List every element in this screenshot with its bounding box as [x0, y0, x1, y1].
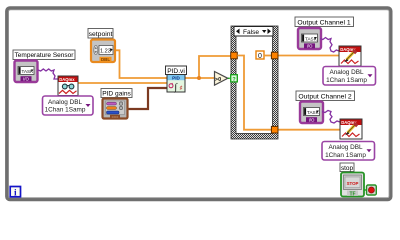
svg-text:I/O: I/O — [307, 44, 313, 49]
svg-text:Output Channel 1: Output Channel 1 — [297, 19, 350, 26]
svg-text:===: === — [112, 115, 119, 119]
tunnel out bottom right — [271, 126, 278, 133]
wire DAQmx Read to PID.vi — [78, 82, 167, 84]
iteration terminal — [10, 187, 20, 199]
wire PID gains to PID.vi — [128, 88, 168, 109]
label Temperature Sensor — [13, 50, 75, 60]
selector tunnel — [231, 75, 238, 83]
wire PID.vi output — [185, 77, 215, 79]
polymorphic selector Analog DBL 1Chan 1Samp (write 1) — [323, 67, 376, 86]
svg-text:setpoint: setpoint — [89, 31, 113, 38]
svg-text:?: ? — [232, 77, 235, 83]
svg-text:PID gains: PID gains — [102, 91, 131, 98]
svg-text:PID: PID — [172, 76, 180, 81]
PID.vi icon — [167, 75, 185, 94]
wire stop to conditional terminal — [364, 189, 367, 191]
Greater Than 0 function — [215, 72, 228, 86]
DAQmx task constant Output Channel 2 — [300, 102, 323, 124]
svg-text:TF: TF — [349, 191, 355, 197]
numeric constant 0 — [256, 51, 264, 60]
wire 0 to tunnel — [264, 55, 271, 57]
label Output Channel 2 — [296, 91, 355, 101]
label PID.vi — [166, 66, 187, 75]
while loop — [7, 8, 391, 200]
svg-text:Output Channel 2: Output Channel 2 — [298, 93, 351, 100]
svg-text:PID.vi: PID.vi — [167, 68, 185, 75]
PID gains cluster control — [103, 99, 128, 119]
svg-text:1Chan 1Samp: 1Chan 1Samp — [325, 152, 366, 159]
junction — [197, 76, 201, 80]
DAQmx Write 2 VI icon — [340, 119, 362, 139]
DAQmx task constant Output Channel 1 — [298, 28, 321, 49]
svg-text:False: False — [243, 29, 259, 36]
boolean wire to case selector — [228, 77, 231, 79]
case selector label False — [234, 27, 273, 37]
svg-text:DBL: DBL — [101, 57, 110, 62]
polymorphic selector Analog DBL 1Chan 1Samp (write 2) — [322, 142, 375, 161]
svg-text:I/O: I/O — [309, 117, 315, 122]
task wire to DAQmx Read — [38, 69, 58, 79]
case structure — [231, 26, 278, 139]
svg-text:DAQmx: DAQmx — [59, 77, 75, 82]
wire case top tunnel to DAQmx Write 1 — [278, 55, 339, 57]
conditional terminal — [367, 185, 377, 195]
DAQmx Write 1 VI icon — [339, 46, 361, 66]
polymorphic selector Analog DBL 1Chan 1Samp (read) — [43, 96, 94, 115]
svg-text:I/O: I/O — [23, 76, 29, 81]
svg-text:1.23: 1.23 — [100, 49, 111, 55]
svg-text:Analog DBL: Analog DBL — [48, 99, 83, 106]
svg-text:Analog DBL: Analog DBL — [329, 69, 364, 76]
label PID gains — [101, 89, 132, 98]
wire setpoint to PID.vi — [115, 50, 167, 78]
svg-text:0: 0 — [258, 53, 262, 60]
task wire to DAQmx Write 2 — [322, 111, 340, 124]
task wire to DAQmx Write 1 — [320, 38, 339, 53]
svg-text:♯: ♯ — [180, 85, 183, 91]
setpoint numeric control — [91, 40, 115, 63]
label setpoint — [88, 29, 113, 39]
svg-text:Temperature Sensor: Temperature Sensor — [15, 52, 75, 59]
wire inside case (false: value to bottom) — [237, 56, 271, 130]
stop button control — [341, 173, 364, 198]
svg-text:STOP: STOP — [347, 181, 359, 186]
svg-text:>0: >0 — [215, 77, 221, 83]
label Output Channel 1 — [295, 17, 354, 27]
DAQmx task constant Temperature Sensor — [15, 61, 38, 83]
svg-text:1Chan 1Samp: 1Chan 1Samp — [45, 107, 86, 114]
wire case bottom tunnel to DAQmx Write 2 — [278, 129, 340, 131]
svg-text:Analog DBL: Analog DBL — [328, 144, 363, 151]
svg-text:stop: stop — [341, 165, 354, 172]
tunnel out top right — [271, 52, 278, 59]
svg-text:i: i — [14, 188, 17, 198]
tunnel PID value in (top left) — [231, 52, 238, 59]
DAQmx Read VI icon — [58, 76, 78, 96]
label stop — [340, 163, 354, 172]
svg-text:1Chan 1Samp: 1Chan 1Samp — [326, 77, 367, 84]
